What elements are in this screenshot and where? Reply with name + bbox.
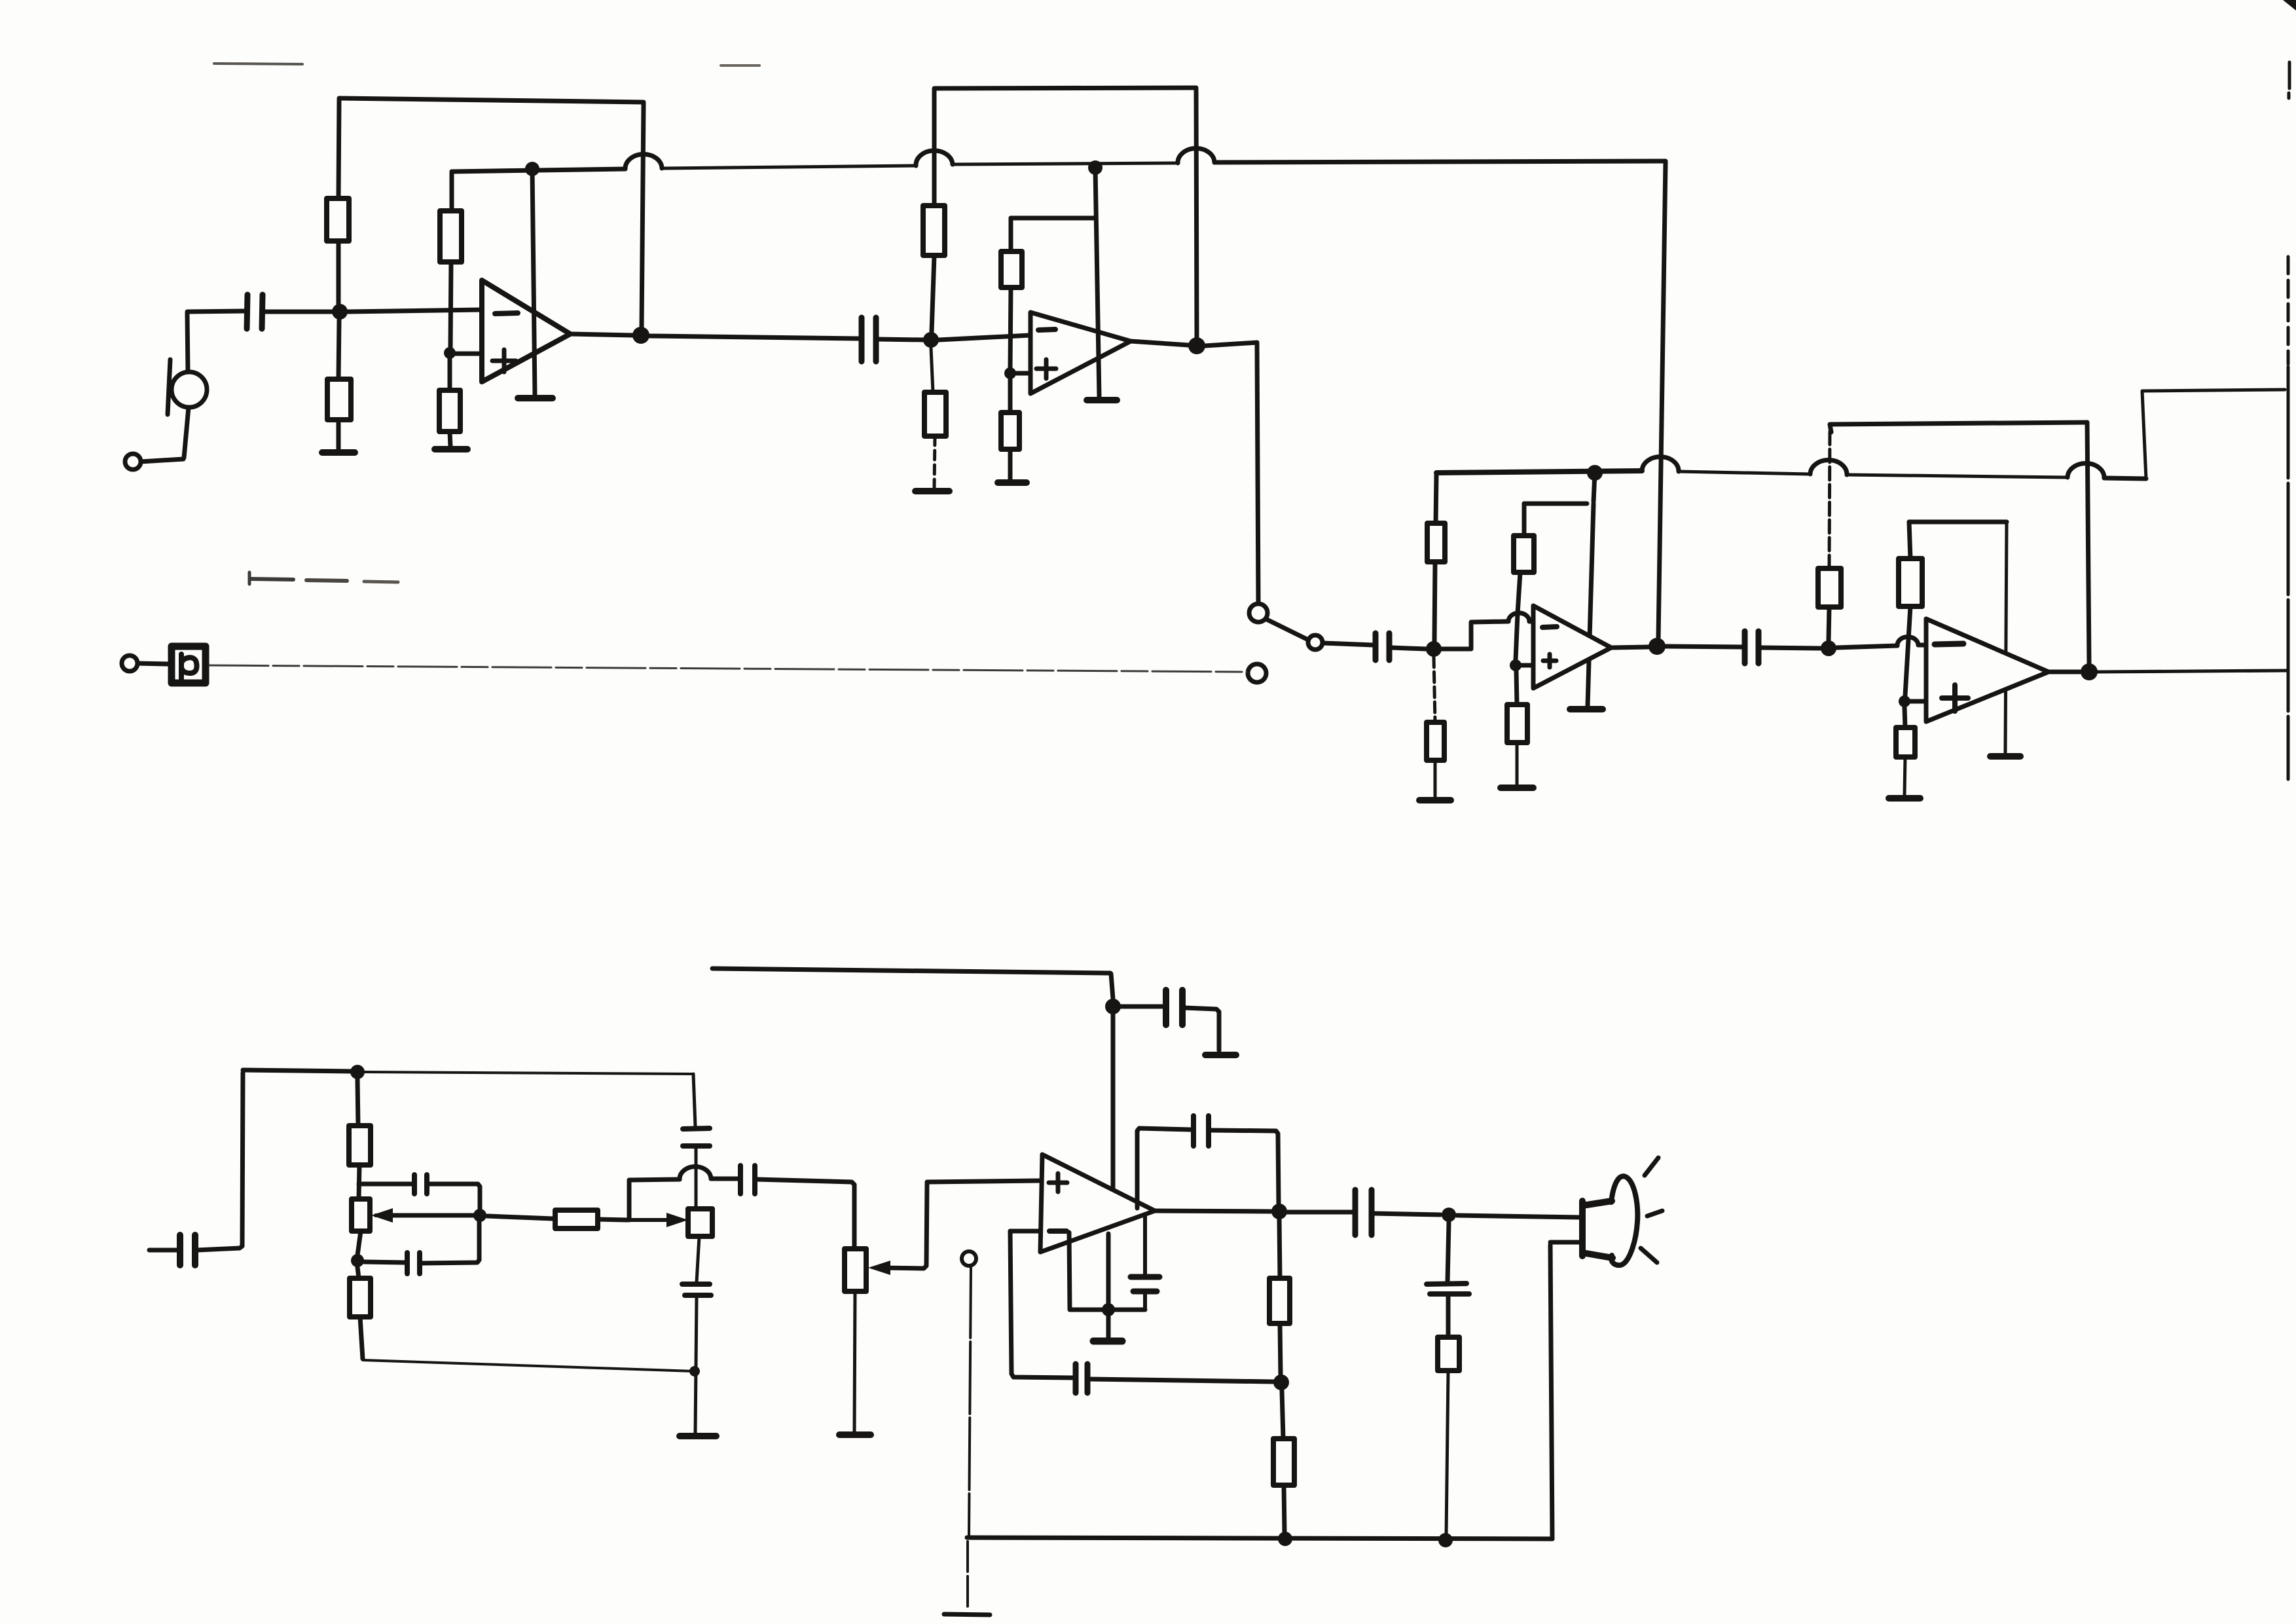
- wire R7b to ground: [1008, 449, 1013, 479]
- stray pencil dashes left middle: [249, 572, 398, 584]
- wire node R down to R16: [357, 1267, 359, 1278]
- wire pickup long line to switch: [210, 665, 1247, 672]
- wire branch to C7: [359, 1182, 411, 1187]
- wire C5 to top-left rail: [197, 1073, 243, 1250]
- wire R9 to ground: [1434, 760, 1437, 798]
- ground GND3: [518, 395, 553, 401]
- wire U4 ground pin: [2005, 522, 2007, 752]
- node J (power junction): [1105, 999, 1121, 1014]
- resistor R3: [440, 211, 462, 262]
- wire U3 ground pin: [1588, 504, 1594, 706]
- wire C2 to node C: [878, 339, 923, 340]
- wire node E step to U3 - input: [1442, 621, 1508, 649]
- node D2 (rail junction above U2): [1088, 160, 1102, 175]
- resistor R12: [1818, 568, 1841, 607]
- wire C1 to node A: [264, 310, 334, 314]
- resistor R13 (U4 divider upper): [1899, 559, 1922, 606]
- wire right edge vertical: [2287, 257, 2290, 779]
- wire R4 to ground: [450, 432, 450, 447]
- wire R13 down across - line: [1905, 606, 1910, 695]
- node Q (tone mid junction): [473, 1209, 486, 1222]
- wire bus node to U3 inner node: [1594, 473, 1595, 502]
- terminal J2 (bottom): [962, 1251, 976, 1266]
- potentiometer RV1: [352, 1199, 393, 1231]
- wire node A up to R1: [337, 241, 341, 304]
- wire stem to ground: [1106, 1316, 1111, 1338]
- wire U5 feedback cap branch: [1137, 1128, 1191, 1208]
- wire switch feed vertical: [1257, 342, 1258, 602]
- resistor R10 (U3 divider upper): [1514, 536, 1534, 572]
- wire node M to speaker: [1457, 1215, 1580, 1217]
- switch SW1 lever: [1266, 619, 1308, 640]
- wire node J to C11: [1121, 1005, 1163, 1009]
- wire node B to C2: [649, 336, 860, 339]
- wire node A down to R2: [338, 320, 339, 379]
- wire R17 to tee: [598, 1219, 627, 1220]
- capacitor C1: [247, 295, 263, 329]
- resistor R17 (horizontal): [555, 1210, 598, 1228]
- wire right edge top dash: [2289, 62, 2289, 98]
- wire node C to U2 - input: [939, 335, 1030, 340]
- node N (bottom rail junction 1): [1278, 1532, 1292, 1546]
- wire bus segment 3: [1847, 475, 2068, 477]
- wire corner down to node J: [1111, 974, 1113, 999]
- wire U4 output to node I: [2049, 670, 2081, 674]
- wire node K down to R19: [1282, 1390, 1283, 1439]
- wire node down to R14: [1904, 707, 1905, 728]
- wire + input U2: [1010, 371, 1030, 376]
- wire R20 to bottom rail: [1446, 1371, 1448, 1534]
- wire U4 feedback vertical: [2087, 422, 2089, 663]
- node M (speaker node): [1442, 1208, 1456, 1222]
- wire node R to C8: [364, 1262, 405, 1263]
- wire R18 to node K: [1280, 1323, 1281, 1375]
- wire C5 left stub: [149, 1248, 177, 1253]
- ground GND12: [680, 1433, 716, 1439]
- wire down to R7a: [1009, 218, 1013, 251]
- ground GND15: [1093, 1338, 1122, 1345]
- wire node A to U1 - input: [348, 310, 481, 312]
- wire lever contact to C3: [1323, 643, 1373, 645]
- wire U5 ground pin: [1106, 1234, 1111, 1307]
- wire rail segment 4: [1214, 161, 1666, 162]
- wire - input U5: [1010, 1229, 1040, 1234]
- node P (tone rail junction): [350, 1065, 365, 1079]
- wire C4 to node H: [1761, 648, 1820, 648]
- resistor R20: [1438, 1337, 1459, 1371]
- resistor R7a (U2 divider upper): [1001, 251, 1022, 287]
- wire into U3 - input: [1529, 619, 1533, 624]
- capacitor C2: [862, 318, 876, 361]
- node C (U2 input node): [923, 332, 939, 348]
- node G (U3 output node): [1649, 638, 1666, 655]
- wire R15 to pot RV1: [359, 1165, 359, 1199]
- wire RV1 wiper to node Q: [385, 1213, 478, 1218]
- resistor R15: [349, 1126, 371, 1165]
- wire C6 down to pot RV2: [695, 1148, 698, 1207]
- wire node C down to R6: [931, 348, 933, 392]
- wire R1 to feedback top: [338, 100, 339, 198]
- capacitor C13 (polarized, output to bar): [1131, 1215, 1159, 1310]
- wire R19 to bottom rail: [1284, 1485, 1285, 1532]
- switch SW1 lower contact: [1248, 664, 1266, 682]
- wire inner - branch down: [1069, 1232, 1070, 1308]
- scan corner artifact top right: [2283, 0, 2296, 10]
- wire node E down to R9: [1434, 657, 1435, 722]
- wire down to R13: [1909, 522, 1910, 559]
- terminal J3 (pickup input): [122, 655, 137, 671]
- wire R5 up to feedback top: [932, 90, 937, 206]
- wire node Q to R17: [487, 1216, 553, 1219]
- node H (U4 input node): [1821, 640, 1836, 656]
- wire J1 to microphone: [141, 459, 183, 462]
- pickup P1 box: [172, 646, 206, 683]
- wire J3 to pickup box: [137, 663, 169, 664]
- ground GND11: [1990, 753, 2020, 760]
- potentiometer RV3 (volume): [845, 1249, 890, 1291]
- wire bus segment 2: [1679, 471, 1810, 474]
- wire tone top rail left: [243, 1070, 352, 1071]
- node E2 (U3 + node): [1510, 659, 1522, 671]
- ground GND9: [1570, 706, 1603, 712]
- ground GND7: [1419, 797, 1451, 803]
- resistor R9: [1427, 722, 1444, 760]
- wire speaker return vertical: [1550, 1245, 1552, 1539]
- wire R2 to ground: [337, 420, 341, 451]
- wire U2 output: [1131, 341, 1188, 345]
- ground GND5: [998, 479, 1027, 486]
- wire C9 to corner down: [757, 1179, 854, 1247]
- op-amp U2: [1030, 312, 1131, 394]
- wire hop over vertical x1427: [916, 151, 953, 166]
- wire tone bottom return: [363, 1360, 694, 1371]
- wire hop over x2320 at - input: [1508, 613, 1529, 621]
- wire hop over vertical x1827: [1178, 148, 1214, 163]
- node B (U1 output node): [632, 327, 649, 344]
- wire bus hop over x2538: [1642, 457, 1679, 471]
- op-amp U1: [482, 280, 570, 382]
- wire feedback top U2: [934, 88, 1196, 88]
- stray pencil mark top left: [214, 64, 302, 64]
- wire tee up and right: [629, 1179, 680, 1220]
- wire R7a down across - line: [1010, 287, 1011, 369]
- wire bus hop over x2795: [1810, 460, 1847, 475]
- wire U4 feedback top: [1830, 422, 2087, 432]
- wire inner top U2: [1011, 216, 1095, 221]
- resistor R19: [1273, 1439, 1294, 1485]
- wire tee to RV2 arrow: [629, 1213, 688, 1227]
- wire node down to R7b: [1008, 378, 1013, 413]
- wire C10 down to ground: [695, 1297, 697, 1433]
- capacitor C9: [740, 1166, 755, 1194]
- capacitor C6 (plates): [683, 1128, 710, 1146]
- node L (U5 output node): [1271, 1204, 1287, 1219]
- wire R12 up to feedback top: [1829, 427, 1830, 568]
- wire power top feed: [712, 969, 1110, 973]
- wire hop over feedback vertical x983: [625, 154, 662, 169]
- wire rail segment 2: [662, 166, 916, 168]
- node R (below RV1): [351, 1254, 364, 1267]
- wire node P down to R15: [357, 1079, 358, 1126]
- wire U3 inner feedback top: [1524, 502, 1587, 506]
- node C2p (U2 + node): [1004, 367, 1016, 379]
- wire hop over RV2 stem: [680, 1166, 711, 1179]
- op-amp U4: [1926, 619, 2049, 722]
- wire RV1 down to node R: [357, 1231, 361, 1255]
- capacitor C3: [1376, 633, 1389, 660]
- resistor R7b (U2 divider lower): [1001, 413, 1019, 449]
- wire node M down to C16: [1448, 1222, 1449, 1282]
- wire R14 to ground: [1904, 757, 1905, 795]
- capacitor C5 (bottom input): [180, 1235, 195, 1265]
- wire node G to C4: [1666, 646, 1742, 647]
- switch SW1 upper contact: [1249, 604, 1267, 622]
- node F (bus junction above U3): [1587, 465, 1603, 481]
- wire node down to R11: [1516, 671, 1517, 705]
- wire RV2 down to C10: [697, 1236, 699, 1282]
- wire + input U5: [927, 1181, 1039, 1182]
- wire C7 to node Q riser: [429, 1184, 480, 1209]
- stray pencil mark top mid: [721, 64, 759, 67]
- wire J2 down to ground: [968, 1266, 971, 1609]
- capacitor C4: [1745, 631, 1758, 663]
- wire C8 up to node Q: [422, 1222, 479, 1263]
- resistor R6: [924, 392, 946, 436]
- wire R11 to ground: [1516, 743, 1519, 785]
- capacitor C7: [414, 1175, 427, 1194]
- node O (bottom rail junction 2): [1438, 1533, 1453, 1547]
- wire + input U4: [1904, 699, 1925, 704]
- capacitor C16 (plates): [1427, 1283, 1469, 1294]
- wire node L down to R18: [1279, 1219, 1280, 1278]
- wire U2 ground pin: [1095, 168, 1099, 397]
- wire down to R10: [1522, 504, 1527, 536]
- wire node D to switch corner: [1205, 342, 1257, 346]
- resistor R5: [923, 206, 945, 255]
- wire + input U3: [1516, 663, 1533, 668]
- resistor R14 (U4 divider lower): [1896, 728, 1915, 757]
- ground GND2: [435, 446, 467, 452]
- wire U1 output to node B: [570, 334, 633, 335]
- terminal J1 (mic ground terminal): [125, 454, 141, 470]
- wire C16 down to R20: [1446, 1296, 1451, 1337]
- capacitor C15: [1355, 1190, 1372, 1235]
- speaker sound rays: [1641, 1158, 1662, 1263]
- wire node H to U4 - input: [1836, 646, 1897, 648]
- microphone M1: [168, 360, 207, 415]
- node E (U3 input node): [1426, 641, 1442, 657]
- wire rail corner down to C6: [693, 1074, 695, 1126]
- wire hop over x2914 at - input: [1897, 637, 1918, 646]
- resistor R2: [327, 379, 351, 420]
- wire C14 to node L riser: [1211, 1130, 1279, 1204]
- wire bus segment 4 to step: [2104, 478, 2146, 479]
- capacitor C14: [1194, 1116, 1209, 1146]
- capacitor C8: [407, 1253, 420, 1274]
- ground GND16: [944, 1614, 990, 1615]
- node K2 (inner ground node): [1102, 1303, 1115, 1316]
- wire + input U1: [450, 352, 481, 356]
- node H2 (U4 + node): [1899, 695, 1910, 707]
- switch SW1 lever contact: [1308, 635, 1322, 650]
- node K (feedback junction): [1273, 1375, 1289, 1390]
- resistor R18: [1269, 1278, 1290, 1323]
- wire U5 output: [1155, 1211, 1271, 1211]
- node B2 (rail junction above U1): [525, 162, 539, 176]
- wire tone top rail right: [365, 1072, 693, 1074]
- wire mic top lead to C1: [187, 311, 245, 372]
- wire C15 to node M: [1374, 1213, 1440, 1215]
- ground GND1: [322, 449, 355, 456]
- wire mic bottom lead: [184, 407, 189, 458]
- op-amp U3: [1533, 606, 1611, 688]
- wire RV3 wiper lead: [881, 1183, 927, 1268]
- node A (U1 inverting input node): [332, 304, 348, 320]
- wire U4 inner top: [1909, 520, 2007, 525]
- wire feedback top U1: [339, 98, 644, 102]
- wire R3 down across input to node: [450, 262, 451, 349]
- wire R16 down to bottom return: [360, 1317, 363, 1359]
- node S (bottom return joins): [689, 1366, 700, 1376]
- ground GND10: [1889, 795, 1920, 802]
- potentiometer RV2: [688, 1209, 712, 1236]
- wire R8 up to bus corner: [1436, 474, 1436, 523]
- wire C12 to node K: [1089, 1379, 1273, 1382]
- speaker LS1: [1582, 1176, 1637, 1265]
- resistor R4: [439, 390, 460, 432]
- wire node I to right edge: [2098, 671, 2286, 672]
- wire U3 output to node G: [1611, 647, 1649, 648]
- wire node down to R4: [448, 359, 452, 390]
- resistor R11 (U3 divider lower): [1507, 705, 1527, 743]
- wire into U4 - input: [1918, 643, 1925, 648]
- wire node L to C15: [1287, 1210, 1353, 1215]
- ground GND13: [839, 1431, 871, 1438]
- capacitor C10 (plates): [682, 1284, 711, 1295]
- wire C3 to node E: [1391, 648, 1426, 649]
- wire speaker bottom lead: [1550, 1240, 1580, 1245]
- wire node H up to R12: [1829, 607, 1829, 640]
- wire R6 to ground: [934, 436, 935, 487]
- wire U1 ground pin: [532, 169, 535, 396]
- wire bus hop over x3191: [2068, 463, 2104, 478]
- op-amp U5 (power amp): [1040, 1154, 1155, 1252]
- wire C11 to ground corner: [1184, 1008, 1219, 1050]
- resistor R8: [1427, 523, 1445, 562]
- node D (U2 output node): [1188, 337, 1205, 354]
- wire hop to C9: [711, 1177, 738, 1181]
- capacitor C11: [1166, 990, 1182, 1025]
- wire bottom rail: [967, 1538, 1552, 1539]
- ground GND14: [1205, 1052, 1236, 1058]
- wire node C up to R5: [932, 255, 934, 332]
- wire bus step up and right: [2142, 390, 2285, 479]
- wire node J down to U5 power pin: [1111, 1014, 1116, 1189]
- ground GND8: [1501, 784, 1533, 791]
- wire rail corner down to R3: [450, 172, 454, 211]
- wire long vertical from rail to node G: [1658, 162, 1666, 638]
- wire feedback vertical to node B: [642, 103, 644, 329]
- wire feedback vertical to node D: [1196, 89, 1197, 338]
- wire node E up to R8: [1434, 562, 1435, 641]
- wire rail segment 1 (bias rail): [452, 169, 625, 172]
- wire inner bottom bar: [1070, 1308, 1145, 1312]
- wire R10 down across - line: [1516, 572, 1520, 660]
- wire RV3 down to ground: [854, 1291, 855, 1432]
- wire - feedback down: [1010, 1231, 1073, 1378]
- capacitor C12: [1076, 1364, 1087, 1393]
- ground GND4: [915, 488, 949, 494]
- wire rail segment 3: [953, 163, 1178, 164]
- node A2 (U1 + input node): [444, 347, 456, 359]
- node I (U4 output node): [2081, 663, 2098, 680]
- ground GND6: [1087, 397, 1117, 403]
- resistor R16: [350, 1278, 371, 1317]
- wire bus segment 1: [1436, 471, 1642, 473]
- resistor R1: [327, 198, 349, 241]
